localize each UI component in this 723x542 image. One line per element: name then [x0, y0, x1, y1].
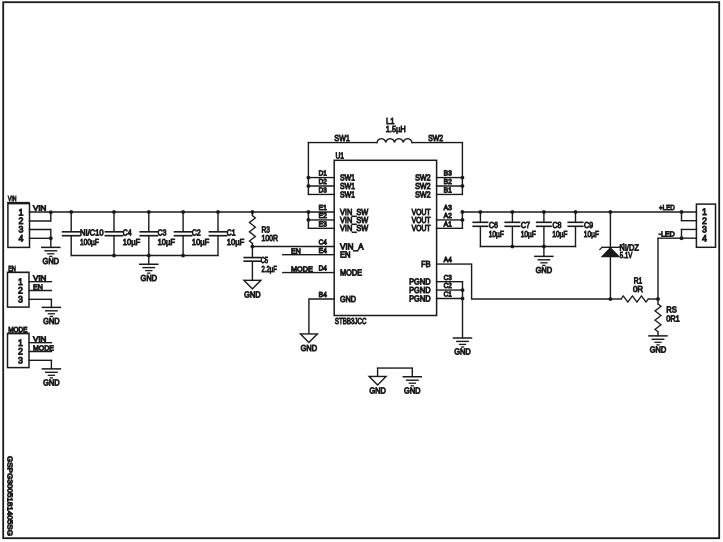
svg-text:C4: C4 — [319, 240, 327, 247]
svg-text:GND: GND — [244, 290, 261, 300]
svg-text:10µF: 10µF — [584, 229, 599, 239]
svg-text:STBB3JCC: STBB3JCC — [335, 316, 367, 326]
svg-text:EN: EN — [33, 282, 43, 291]
svg-text:EN: EN — [340, 250, 351, 260]
svg-text:GND: GND — [43, 316, 60, 326]
svg-text:EN: EN — [8, 264, 16, 273]
svg-text:2.2µF: 2.2µF — [262, 264, 277, 274]
svg-text:100R: 100R — [262, 233, 279, 243]
svg-text:GND: GND — [43, 378, 60, 388]
svg-text:A2: A2 — [444, 213, 452, 220]
svg-text:B1: B1 — [444, 188, 452, 195]
svg-text:VIN: VIN — [33, 203, 46, 212]
svg-text:VIN: VIN — [8, 194, 17, 203]
svg-text:B3: B3 — [444, 171, 452, 178]
svg-text:GSPG3005181405SG: GSPG3005181405SG — [6, 456, 15, 536]
svg-text:0R: 0R — [633, 284, 643, 294]
svg-text:A4: A4 — [444, 257, 452, 264]
svg-text:4: 4 — [702, 233, 707, 243]
svg-text:C1: C1 — [444, 292, 452, 299]
svg-text:+LED: +LED — [659, 203, 675, 212]
svg-text:MODE: MODE — [8, 325, 27, 334]
svg-text:GND: GND — [340, 294, 356, 304]
svg-text:MODE: MODE — [291, 264, 313, 273]
svg-text:SW1: SW1 — [340, 189, 355, 199]
svg-text:VIN_SW: VIN_SW — [340, 223, 368, 233]
svg-text:U1: U1 — [336, 150, 345, 160]
svg-text:VIN: VIN — [33, 335, 46, 344]
svg-text:3: 3 — [18, 355, 23, 365]
svg-text:C3: C3 — [444, 275, 452, 282]
svg-text:E2: E2 — [319, 213, 327, 220]
svg-text:D1: D1 — [319, 171, 327, 178]
svg-text:GND: GND — [369, 386, 386, 396]
svg-text:-LED: -LED — [659, 230, 675, 239]
svg-text:C3: C3 — [158, 227, 167, 237]
svg-text:E3: E3 — [319, 221, 327, 228]
svg-text:E1: E1 — [319, 205, 327, 212]
svg-text:GND: GND — [454, 347, 471, 357]
svg-text:5.1V: 5.1V — [620, 250, 633, 260]
svg-text:0R1: 0R1 — [666, 313, 680, 323]
svg-text:VIN: VIN — [33, 274, 46, 283]
svg-text:GND: GND — [43, 256, 60, 266]
svg-text:10µF: 10µF — [552, 229, 567, 239]
svg-text:GND: GND — [141, 273, 158, 283]
svg-text:D3: D3 — [319, 188, 327, 195]
svg-text:A3: A3 — [444, 205, 452, 212]
svg-text:EN: EN — [291, 247, 301, 256]
svg-text:4: 4 — [18, 233, 23, 243]
svg-text:D2: D2 — [319, 179, 327, 186]
svg-text:E4: E4 — [319, 248, 327, 255]
svg-text:B4: B4 — [319, 292, 327, 299]
svg-text:MODE: MODE — [340, 268, 362, 278]
svg-text:10µF: 10µF — [192, 237, 209, 247]
svg-text:10µF: 10µF — [123, 237, 140, 247]
svg-text:C1: C1 — [227, 227, 236, 237]
svg-text:GND: GND — [301, 343, 318, 353]
svg-text:100µF: 100µF — [80, 237, 99, 247]
svg-text:C4: C4 — [123, 227, 132, 237]
svg-text:SW1: SW1 — [334, 133, 350, 143]
svg-text:10µF: 10µF — [158, 237, 175, 247]
svg-text:VOUT: VOUT — [412, 223, 431, 233]
svg-text:10µF: 10µF — [227, 237, 244, 247]
svg-text:C2: C2 — [444, 283, 452, 290]
svg-text:D4: D4 — [319, 266, 327, 273]
svg-text:A1: A1 — [444, 221, 452, 228]
svg-text:C2: C2 — [192, 227, 201, 237]
svg-text:SW2: SW2 — [415, 189, 431, 199]
svg-text:GND: GND — [650, 345, 667, 355]
svg-text:GND: GND — [536, 265, 553, 275]
svg-text:MODE: MODE — [33, 343, 54, 352]
svg-text:FB: FB — [421, 259, 431, 269]
svg-text:10µF: 10µF — [521, 229, 536, 239]
svg-text:1.5µH: 1.5µH — [386, 124, 406, 134]
svg-text:10µF: 10µF — [489, 229, 504, 239]
svg-text:B2: B2 — [444, 179, 452, 186]
svg-text:GND: GND — [404, 385, 421, 395]
svg-text:PGND: PGND — [409, 293, 431, 303]
svg-text:NI/C10: NI/C10 — [80, 227, 104, 237]
svg-text:3: 3 — [18, 294, 23, 304]
svg-text:SW2: SW2 — [428, 133, 443, 143]
